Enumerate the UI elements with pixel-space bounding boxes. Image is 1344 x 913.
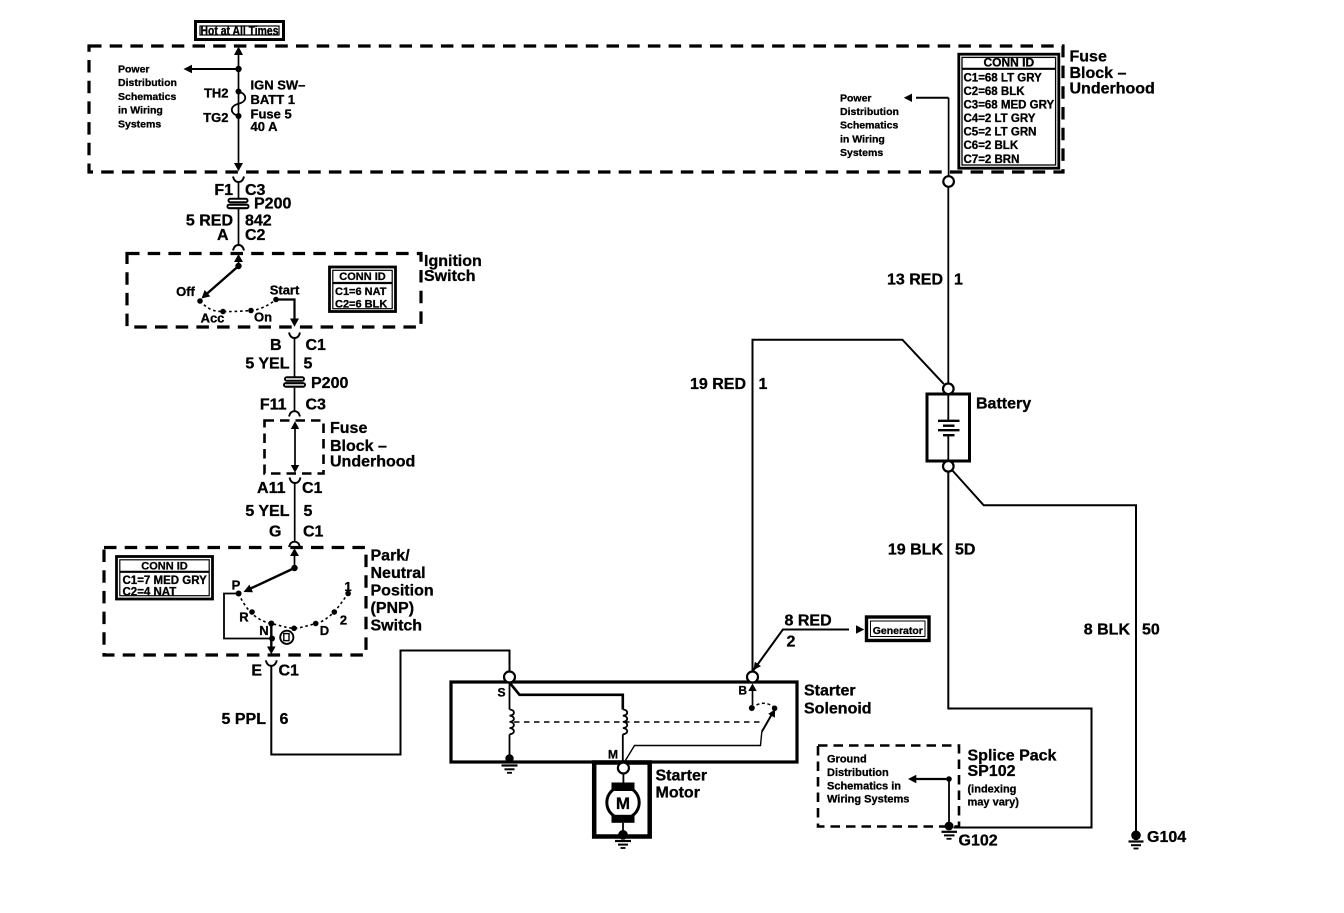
svg-text:B: B <box>738 684 747 698</box>
svg-text:(indexing: (indexing <box>968 784 1017 796</box>
svg-text:C1: C1 <box>302 480 323 497</box>
svg-text:Schematics in: Schematics in <box>827 780 901 792</box>
svg-text:P200: P200 <box>254 196 291 213</box>
svg-text:C1: C1 <box>279 663 300 680</box>
svg-text:C3: C3 <box>306 397 327 414</box>
svg-text:CONN ID: CONN ID <box>339 271 386 283</box>
svg-text:C2: C2 <box>245 227 266 244</box>
svg-text:Power: Power <box>118 64 150 76</box>
svg-text:C2=68 BLK: C2=68 BLK <box>964 86 1026 98</box>
svg-text:Hot at All Times: Hot at All Times <box>201 24 279 38</box>
svg-text:13 RED: 13 RED <box>887 272 943 289</box>
svg-text:E: E <box>251 663 262 680</box>
svg-text:D: D <box>320 623 329 638</box>
svg-text:Switch: Switch <box>371 618 423 635</box>
svg-text:C1: C1 <box>303 524 324 541</box>
svg-text:C2=6 BLK: C2=6 BLK <box>335 299 387 311</box>
svg-text:Block –: Block – <box>1070 65 1127 82</box>
svg-text:C1: C1 <box>306 337 327 354</box>
svg-text:50: 50 <box>1142 622 1160 639</box>
svg-text:TH2: TH2 <box>204 86 229 101</box>
svg-text:1: 1 <box>759 376 768 393</box>
svg-text:C1=6 NAT: C1=6 NAT <box>335 286 387 298</box>
svg-text:6: 6 <box>280 711 289 728</box>
svg-text:C7=2 BRN: C7=2 BRN <box>964 154 1020 166</box>
svg-text:A: A <box>217 227 229 244</box>
svg-text:8 RED: 8 RED <box>785 613 832 630</box>
svg-text:IGN SW–: IGN SW– <box>251 78 306 93</box>
svg-text:2: 2 <box>787 634 796 651</box>
svg-text:Battery: Battery <box>976 396 1031 413</box>
svg-text:Park/: Park/ <box>371 548 411 565</box>
svg-text:8 BLK: 8 BLK <box>1084 622 1131 639</box>
svg-text:On: On <box>254 310 272 325</box>
svg-text:in Wiring: in Wiring <box>840 133 885 145</box>
svg-text:Motor: Motor <box>656 785 700 802</box>
svg-text:Power: Power <box>840 93 872 105</box>
svg-text:19 RED: 19 RED <box>690 376 746 393</box>
svg-text:M: M <box>616 794 630 813</box>
svg-text:N: N <box>259 623 268 638</box>
svg-text:C5=2 LT GRN: C5=2 LT GRN <box>964 127 1037 139</box>
svg-text:Schematics: Schematics <box>118 91 177 103</box>
svg-text:G: G <box>269 524 281 541</box>
svg-text:Generator: Generator <box>873 625 923 637</box>
svg-text:C3=68 MED GRY: C3=68 MED GRY <box>964 100 1055 112</box>
svg-text:Wiring Systems: Wiring Systems <box>827 794 909 806</box>
svg-text:1: 1 <box>344 579 351 594</box>
svg-text:P200: P200 <box>311 375 348 392</box>
svg-text:TG2: TG2 <box>203 110 228 125</box>
svg-text:in Wiring: in Wiring <box>118 105 163 117</box>
svg-text:F1: F1 <box>214 182 233 199</box>
svg-text:C6=2 BLK: C6=2 BLK <box>964 140 1019 152</box>
svg-text:5: 5 <box>304 356 313 373</box>
svg-text:(PNP): (PNP) <box>371 600 415 617</box>
svg-text:Systems: Systems <box>840 147 883 159</box>
svg-text:Ground: Ground <box>827 754 867 766</box>
svg-text:C1=7 MED GRY: C1=7 MED GRY <box>123 575 208 587</box>
svg-text:Start: Start <box>270 283 300 298</box>
svg-text:G104: G104 <box>1147 829 1186 846</box>
svg-text:Distribution: Distribution <box>840 106 899 118</box>
svg-text:CONN ID: CONN ID <box>141 561 188 573</box>
svg-text:Schematics: Schematics <box>840 120 899 132</box>
svg-text:M: M <box>608 748 618 762</box>
svg-text:C2=4 NAT: C2=4 NAT <box>123 587 177 599</box>
svg-text:Underhood: Underhood <box>1070 81 1155 98</box>
svg-text:Distribution: Distribution <box>827 767 889 779</box>
svg-text:Starter: Starter <box>804 683 856 700</box>
svg-text:5: 5 <box>304 503 313 520</box>
svg-text:may vary): may vary) <box>968 797 1020 809</box>
svg-text:BATT 1: BATT 1 <box>251 92 296 107</box>
svg-text:Position: Position <box>371 583 434 600</box>
svg-text:P: P <box>232 578 241 593</box>
svg-text:5D: 5D <box>955 542 975 559</box>
svg-text:1: 1 <box>954 272 963 289</box>
svg-text:C4=2 LT GRY: C4=2 LT GRY <box>964 113 1036 125</box>
svg-text:Systems: Systems <box>118 118 161 130</box>
svg-text:Fuse: Fuse <box>330 420 367 437</box>
svg-text:G102: G102 <box>959 833 998 850</box>
svg-text:A11: A11 <box>257 480 286 497</box>
svg-text:Block –: Block – <box>330 438 387 455</box>
svg-text:5 YEL: 5 YEL <box>245 356 289 373</box>
svg-text:Acc: Acc <box>201 311 225 326</box>
svg-text:S: S <box>497 686 505 700</box>
svg-text:Fuse: Fuse <box>1070 49 1107 66</box>
svg-text:5 PPL: 5 PPL <box>222 711 267 728</box>
svg-text:Distribution: Distribution <box>118 77 177 89</box>
svg-text:Switch: Switch <box>424 268 476 285</box>
svg-text:C1=68 LT GRY: C1=68 LT GRY <box>964 73 1043 85</box>
svg-text:CONN ID: CONN ID <box>983 55 1034 69</box>
svg-text:R: R <box>239 610 249 625</box>
svg-text:Starter: Starter <box>656 768 708 785</box>
svg-text:Underhood: Underhood <box>330 454 415 471</box>
svg-text:Neutral: Neutral <box>371 565 426 582</box>
svg-text:40 A: 40 A <box>251 119 279 134</box>
svg-text:Off: Off <box>176 284 195 299</box>
svg-text:F11: F11 <box>260 397 287 414</box>
svg-text:Solenoid: Solenoid <box>804 701 872 718</box>
svg-text:5 YEL: 5 YEL <box>245 503 289 520</box>
svg-text:SP102: SP102 <box>968 763 1016 780</box>
svg-text:Splice Pack: Splice Pack <box>968 748 1057 765</box>
svg-text:19 BLK: 19 BLK <box>888 542 944 559</box>
svg-text:B: B <box>270 337 282 354</box>
svg-text:2: 2 <box>340 613 347 628</box>
